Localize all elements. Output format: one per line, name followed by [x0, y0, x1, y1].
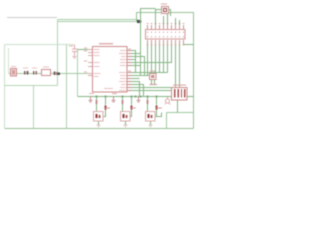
wire crystal bottom stubs	[152, 80, 155, 85]
wire bottom-right loop	[167, 113, 194, 129]
ground below K1	[97, 125, 101, 127]
J1 pin number texts above/below	[147, 23, 185, 46]
IC U1 label above	[99, 43, 113, 44]
resistor R5	[95, 100, 97, 104]
sheet outline right	[137, 13, 194, 129]
bottom unit 3 wires	[148, 97, 162, 125]
sheet outline left	[5, 45, 75, 129]
connector P1	[11, 69, 17, 77]
wire connector pin drops to y75 rail	[148, 44, 152, 76]
bus junction dots	[96, 96, 158, 98]
J1 inner pin dots rows	[147, 32, 184, 38]
wire IC lower rows	[131, 72, 148, 74]
wire bus pair top	[58, 19, 139, 21]
wire IC pin y65 stub	[131, 65, 141, 67]
wires around X1	[156, 10, 180, 26]
opto-relay K1	[94, 112, 104, 122]
bottom-right connector J2 body	[172, 88, 188, 101]
diode D3	[155, 105, 157, 109]
opto-relay K3	[146, 112, 156, 122]
jumper X1	[162, 7, 169, 14]
IC inner pin-name text dashes	[94, 49, 127, 91]
wire power rail y96	[78, 96, 194, 98]
wire staircase group	[131, 9, 194, 97]
ground symbols below IC	[89, 93, 94, 94]
wire IC pin y62 to connector pin7 riser	[131, 44, 172, 63]
junction node chain riser	[58, 73, 61, 76]
wire IC pin y59 stub	[131, 59, 136, 61]
wire IC pin y56 to x144 drop	[131, 57, 145, 76]
wire y72 rail	[136, 72, 168, 74]
bottom unit 1 wires	[97, 97, 106, 125]
diode D2	[130, 105, 132, 109]
ground below K3	[149, 125, 153, 127]
capacitor C2 marks	[150, 84, 158, 86]
value labels chain	[11, 66, 49, 69]
wire connector pins 8,9 long drops to J2	[176, 44, 180, 88]
IC U1 body	[93, 47, 128, 93]
label K2	[130, 108, 136, 109]
wire connector pin10 to frame	[184, 44, 194, 45]
wire IC pin y53 stub	[131, 53, 141, 55]
J2 down wire	[177, 100, 179, 113]
wire vertical x33	[33, 86, 35, 129]
ground below K2	[124, 125, 128, 127]
J1 top pin stubs	[148, 25, 184, 44]
IC left pin number texts	[84, 48, 131, 73]
wire vertical x77	[77, 50, 79, 97]
J2 inner pin bars	[174, 89, 185, 97]
wire IC pin y50 to x135 drop	[131, 51, 136, 73]
transistor Q1	[165, 97, 170, 105]
misc tiny labels	[112, 4, 167, 95]
J2 pin number text	[173, 85, 186, 86]
IC left pin stubs	[88, 50, 92, 76]
opto-relay K2	[121, 112, 131, 122]
wire top horizontal y8 and x140 drop	[141, 9, 156, 76]
resistor R2	[24, 71, 26, 75]
capacitor C1 label	[69, 46, 73, 47]
junction node bus end	[137, 20, 140, 23]
sheet border top line	[7, 17, 57, 19]
label K3	[156, 108, 162, 109]
wire long vertical x66	[66, 45, 68, 129]
capacitor C1	[72, 45, 78, 59]
wire IC left pin y49 to x77	[78, 49, 89, 51]
label K1	[104, 108, 110, 109]
IC right pin stubs	[127, 51, 131, 91]
resistor R4 marks	[54, 72, 56, 75]
wire riser x58	[57, 20, 59, 86]
resistor R6	[121, 100, 123, 104]
wire inner left vertical	[8, 48, 10, 73]
resistor R3	[33, 71, 35, 75]
wire y75 rail	[141, 75, 150, 77]
top connector J1 body	[146, 30, 186, 40]
sheet outline bottom	[5, 128, 194, 130]
diode D1	[104, 105, 106, 109]
crystal Y1	[150, 74, 157, 80]
wire horizontal y85	[5, 85, 58, 87]
wire input chain y73	[9, 73, 93, 75]
bottom unit 2 wires	[123, 97, 132, 125]
resistor R1	[42, 70, 51, 76]
resistor R7	[146, 100, 148, 104]
